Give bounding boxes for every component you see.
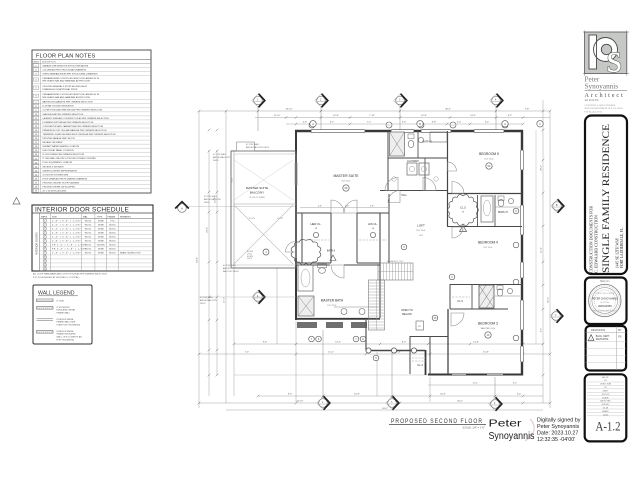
PS logo square <box>583 31 629 81</box>
svg-text:WOOD: WOOD <box>109 224 116 226</box>
svg-text:WALL, W R-13 (SEE PLAN: WALL, W R-13 (SEE PLAN <box>57 336 83 339</box>
svg-text:WOOD: WOOD <box>85 249 92 251</box>
svg-text:BEDROOM 5: BEDROOM 5 <box>479 152 499 156</box>
svg-text:WOOD: WOOD <box>85 224 92 226</box>
svg-text:WOOD: WOOD <box>85 229 92 231</box>
svg-text:13'-4″: 13'-4″ <box>335 342 341 344</box>
svg-text:16 RISERS @ 7 3/4″: 16 RISERS @ 7 3/4″ <box>387 261 404 263</box>
svg-text:8″ CMU: 8″ CMU <box>57 301 65 303</box>
svg-text:UNDERCOUNTER REFRIGERATOR: UNDERCOUNTER REFRIGERATOR <box>43 169 78 172</box>
svg-text:B: B <box>556 204 558 207</box>
svg-text:MASTER SUITE: MASTER SUITE <box>246 186 268 190</box>
svg-text:2'-8″ x 6'-8″ x 1-3/8″: 2'-8″ x 6'-8″ x 1-3/8″ <box>52 220 81 222</box>
svg-text:2'-8″ x 6'-8″ x 1-3/8″: 2'-8″ x 6'-8″ x 1-3/8″ <box>52 233 81 235</box>
svg-text:4C STG WALL: 4C STG WALL <box>246 143 260 146</box>
svg-text:6'-4″: 6'-4″ <box>485 122 490 124</box>
svg-text:STEEL BEAM ABOVE AS PER STRUCT: STEEL BEAM ABOVE AS PER STRUCTURAL DRAWI… <box>43 72 99 75</box>
svg-text:8'-4″: 8'-4″ <box>232 178 234 183</box>
svg-text:8″ CMU WALL BELOW OUTDOOR KITC: 8″ CMU WALL BELOW OUTDOOR KITCHEN COUNTE… <box>43 157 97 160</box>
svg-text:5: 5 <box>44 237 45 239</box>
svg-text:AS OF:: AS OF: <box>602 376 609 379</box>
bath4 fixtures <box>497 289 503 296</box>
side and bottom grid bubbles <box>252 290 265 304</box>
svg-text:BELOW: BELOW <box>402 312 412 316</box>
svg-text:PROVIDE GENERAL 3 STORY ACCESS: PROVIDE GENERAL 3 STORY ACCESS SHOP <box>43 85 88 88</box>
svg-text:11: 11 <box>44 261 46 263</box>
svg-text:CL.4: CL.4 <box>417 363 423 367</box>
svg-text:PR 2'-0″ x 6'-8″ x 1-3/8″: PR 2'-0″ x 6'-8″ x 1-3/8″ <box>52 245 86 247</box>
svg-text:PLAN FOR THICKNESS): PLAN FOR THICKNESS) <box>57 323 81 326</box>
svg-text:4'-6″: 4'-6″ <box>303 122 308 124</box>
svg-text:WOOD: WOOD <box>85 220 92 222</box>
svg-text:REVISIONS: REVISIONS <box>596 339 609 341</box>
svg-text:24'-4″: 24'-4″ <box>207 227 209 233</box>
loft railing <box>366 350 425 352</box>
svg-text:WOOD: WOOD <box>109 241 116 243</box>
svg-text:BALCONY DECK: BALCONY DECK <box>223 270 239 273</box>
wing wall notes <box>213 153 231 162</box>
svg-text:ABOVE BALCONY: ABOVE BALCONY <box>200 299 218 302</box>
svg-text:5'-8″: 5'-8″ <box>370 205 374 207</box>
svg-text:POOL EQUIPMENT LOCATION: POOL EQUIPMENT LOCATION <box>43 161 73 164</box>
svg-text:SEAL No.: SEAL No. <box>600 280 610 283</box>
svg-text:PR 2'-4″ x 6'-8″ x 1-3/8″: PR 2'-4″ x 6'-8″ x 1-3/8″ <box>52 249 86 251</box>
svg-text:7'-0″: 7'-0″ <box>367 122 372 124</box>
svg-text:CL.5: CL.5 <box>460 206 466 210</box>
svg-text:9'-0″ CLG.: 9'-0″ CLG. <box>327 305 337 307</box>
svg-text:INTERIOR DOOR SCHEDULE: INTERIOR DOOR SCHEDULE <box>35 207 129 214</box>
up-chevron bubble left <box>175 202 189 213</box>
svg-text:2'-4″ x 6'-8″ x 1-3/8″: 2'-4″ x 6'-8″ x 1-3/8″ <box>52 237 81 239</box>
dim ticks <box>198 110 552 405</box>
left revision cloud <box>291 239 321 264</box>
svg-text:C. EDWAARD CONSTRUCTION: C. EDWAARD CONSTRUCTION <box>594 215 599 273</box>
svg-text:9'-8″: 9'-8″ <box>263 342 268 344</box>
svg-text:6: 6 <box>44 241 45 243</box>
svg-text:BATHROOM CABINETS PER OWNERS S: BATHROOM CABINETS PER OWNERS SELECTION <box>43 101 93 104</box>
svg-text:REMARKS: REMARKS <box>120 215 131 218</box>
svg-text:26'-2″: 26'-2″ <box>548 297 550 303</box>
svg-text:FRAME WALL: FRAME WALL <box>57 312 71 315</box>
drawing title: proposed second floor <box>389 418 486 430</box>
svg-text:AR0012456: AR0012456 <box>598 304 612 308</box>
svg-text:WOOD: WOOD <box>85 237 92 239</box>
svg-text:ABOVE BALCONY: ABOVE BALCONY <box>213 156 231 159</box>
shower crosshatch <box>479 285 494 308</box>
svg-text:WALL LEGEND: WALL LEGEND <box>38 290 75 296</box>
svg-text:16'-8″: 16'-8″ <box>333 115 339 117</box>
svg-text:8'-2″: 8'-2″ <box>508 115 513 117</box>
svg-text:7: 7 <box>44 245 45 247</box>
svg-text:PREMIUM FLOOR TILE AND BASE AS: PREMIUM FLOOR TILE AND BASE AS PER OWNER… <box>43 129 107 132</box>
signature name <box>489 419 535 443</box>
svg-text:12: 12 <box>44 265 46 267</box>
svg-text:Peter: Peter <box>489 419 523 430</box>
svg-text:4C STG WALL: 4C STG WALL <box>200 296 214 299</box>
svg-text:WOOD: WOOD <box>109 233 116 235</box>
svg-text:2'-4″ x 6'-8″ x 1-3/8″: 2'-4″ x 6'-8″ x 1-3/8″ <box>52 229 81 231</box>
svg-text:15'-8″: 15'-8″ <box>483 352 489 354</box>
svg-text:ABOVE: ABOVE <box>223 267 231 270</box>
svg-text:23-08: 23-08 <box>603 408 609 410</box>
svg-text:CLOSET ROD AND SHELVING AS PER: CLOSET ROD AND SHELVING AS PER OWNERS SE… <box>43 109 103 112</box>
svg-text:FLOOR PLAN NOTES: FLOOR PLAN NOTES <box>36 53 96 59</box>
svg-text:WOOD: WOOD <box>85 233 92 235</box>
svg-text:NONE: NONE <box>98 241 104 243</box>
svg-text:STATE OF FLORIDA: STATE OF FLORIDA <box>595 292 614 295</box>
interior door schedule <box>32 205 153 279</box>
svg-text:1/4:12: 1/4:12 <box>247 258 252 260</box>
svg-text:HIS CL.: HIS CL. <box>368 222 378 226</box>
svg-text:FL LIC No: FL LIC No <box>601 302 610 304</box>
balcony parapet segments <box>297 322 317 328</box>
svg-text:PROVIDE CRICKET ROOF FLASHING: PROVIDE CRICKET ROOF FLASHING <box>43 181 80 184</box>
svg-text:4'-8″: 4'-8″ <box>432 122 437 124</box>
svg-text:6'-8″ DOOR HEIGHT AT GROUND FL: 6'-8″ DOOR HEIGHT AT GROUND FL. (TYPICAL… <box>33 276 80 279</box>
revisions box <box>586 326 627 371</box>
svg-text:Date: 2023.10.27: Date: 2023.10.27 <box>537 431 578 437</box>
svg-text:5'-8″: 5'-8″ <box>318 205 322 207</box>
top grid bubbles <box>252 94 265 108</box>
svg-text:5'-4″: 5'-4″ <box>402 122 407 124</box>
svg-text:PTD: PTD <box>110 220 115 222</box>
dimension lines <box>199 100 550 410</box>
svg-text:BALCONY: BALCONY <box>250 190 264 194</box>
svg-text:A: A <box>257 295 259 298</box>
digital signature text <box>537 418 581 444</box>
architect name block <box>585 76 628 114</box>
title/sheet box <box>585 374 627 441</box>
svg-text:12'-6″: 12'-6″ <box>472 383 477 385</box>
signature flourish <box>525 419 534 441</box>
svg-text:DECK: DECK <box>200 303 206 305</box>
svg-text:INTERIOR METAL: INTERIOR METAL <box>57 330 75 333</box>
svg-text:MASTER BATH: MASTER BATH <box>321 299 344 303</box>
svg-text:SLOPE: SLOPE <box>277 218 284 220</box>
svg-text:Synoyannis: Synoyannis <box>489 431 535 442</box>
svg-text:INTERIOR METAL: INTERIOR METAL <box>57 318 75 321</box>
svg-text:BEDROOM 4: BEDROOM 4 <box>478 241 498 245</box>
svg-text:SHELVING AS PER OWNERS SELECTI: SHELVING AS PER OWNERS SELECTION <box>43 113 84 116</box>
project title box <box>585 116 627 275</box>
svg-text:INTERIOR DOORS: INTERIOR DOORS <box>35 232 39 255</box>
svg-text:WOOD: WOOD <box>109 237 116 239</box>
svg-text:MASTER SUITE: MASTER SUITE <box>333 174 359 178</box>
svg-text:GARAGE LINE DENOTES STRUCTURE: GARAGE LINE DENOTES STRUCTURE ABOVE <box>43 64 89 67</box>
svg-text:7'-4″: 7'-4″ <box>245 352 250 354</box>
svg-text:9'-0″ CLG.: 9'-0″ CLG. <box>416 230 426 232</box>
svg-text:8: 8 <box>44 249 45 251</box>
svg-text:PROVIDE GARAGE VENT BLOCK: PROVIDE GARAGE VENT BLOCK <box>43 137 76 140</box>
svg-text:HALL: HALL <box>401 194 408 197</box>
svg-text:16'-8″: 16'-8″ <box>421 115 427 117</box>
svg-text:LOFT: LOFT <box>417 224 425 228</box>
svg-text:XXX SW MANDELIN AVE, FL 33025: XXX SW MANDELIN AVE, FL 33025 <box>585 107 624 110</box>
svg-text:Synoyannis: Synoyannis <box>585 83 619 91</box>
svg-text:2'-6″ x 6'-8″ x 1-3/8″: 2'-6″ x 6'-8″ x 1-3/8″ <box>52 224 81 226</box>
svg-text:C: C <box>539 123 541 126</box>
svg-text:COUNTERTOP AND CABINETS AS PER: COUNTERTOP AND CABINETS AS PER OWNERS SE… <box>43 125 104 128</box>
closet shelving dashes <box>304 239 329 241</box>
wall legend <box>33 285 92 344</box>
svg-text:4C STG WALL: 4C STG WALL <box>204 195 218 198</box>
svg-text:ABOVE BALCONY DECK: ABOVE BALCONY DECK <box>246 146 270 149</box>
interior partitions <box>296 212 331 214</box>
svg-text:NONE: NONE <box>98 237 104 239</box>
svg-text:6'-2″: 6'-2″ <box>330 122 335 124</box>
svg-text:4'-0″: 4'-0″ <box>457 122 462 124</box>
svg-text:7'-10″: 7'-10″ <box>369 115 375 117</box>
svg-text:SLOPE TO DRAIN: SLOPE TO DRAIN <box>249 196 265 199</box>
svg-text:34'-10″: 34'-10″ <box>286 109 293 111</box>
svg-text:6'-2″: 6'-2″ <box>513 383 517 385</box>
svg-text:VAULTED CLG.: VAULTED CLG. <box>481 327 496 330</box>
svg-text:PLUMBING FIXTURE AS PER OWNERS: PLUMBING FIXTURE AS PER OWNERS SELECTION <box>43 121 94 124</box>
svg-text:SLIDER: SLIDER <box>97 245 105 247</box>
seal box <box>585 278 627 325</box>
svg-text:BATH.5: BATH.5 <box>327 250 336 253</box>
svg-text:22″ x 54″ ATTIC ACCESS: 22″ x 54″ ATTIC ACCESS <box>43 190 67 193</box>
key circles scattered <box>310 121 316 127</box>
svg-text:MIN GUARD RAIL AND HANDRAIL AS: MIN GUARD RAIL AND HANDRAIL AS PER CODE <box>43 80 91 83</box>
svg-text:20'-10″: 20'-10″ <box>297 401 304 403</box>
svg-text:8'-0″: 8'-0″ <box>402 342 407 344</box>
svg-text:24x36: 24x36 <box>603 414 609 416</box>
svg-text:9: 9 <box>44 253 45 255</box>
svg-text:DECK: DECK <box>204 202 210 204</box>
svg-text:SCALE: 1/4″ = 1'-0″: SCALE: 1/4″ = 1'-0″ <box>462 425 485 429</box>
svg-text:54'-8″: 54'-8″ <box>197 257 199 263</box>
svg-text:NONE: NONE <box>98 253 104 255</box>
svg-text:SLOPE: SLOPE <box>249 218 256 220</box>
svg-text:SINGLE FAMILY RESIDENCE: SINGLE FAMILY RESIDENCE <box>601 124 612 273</box>
svg-text:ROOF DRAIN AS PER PLUMBING DRA: ROOF DRAIN AS PER PLUMBING DRAWINGS <box>43 177 88 180</box>
svg-text:10: 10 <box>44 257 46 259</box>
svg-text:PREFABRICATED 3 STORY ACCESS P: PREFABRICATED 3 STORY ACCESS PLUS LADDER… <box>43 93 100 96</box>
svg-text:2'-8″: 2'-8″ <box>525 109 530 111</box>
svg-text:14'-6″: 14'-6″ <box>470 115 476 117</box>
svg-text:CL.5: CL.5 <box>457 299 463 303</box>
svg-text:MARK: MARK <box>34 61 40 64</box>
svg-text:AR 0012456: AR 0012456 <box>585 99 599 102</box>
svg-text:RECESS 4″ SHOWER: RECESS 4″ SHOWER <box>43 166 64 168</box>
svg-text:9'-2″: 9'-2″ <box>541 328 543 333</box>
svg-text:WOOD: WOOD <box>109 229 116 231</box>
svg-text:3: 3 <box>44 229 45 231</box>
svg-text:63'-0″: 63'-0″ <box>382 408 388 410</box>
svg-text:4: 4 <box>44 233 45 235</box>
svg-text:FRAME INSULATED: FRAME INSULATED <box>57 333 77 336</box>
svg-text:LAUNDRY: LAUNDRY <box>407 159 420 163</box>
svg-text:INSULATED METAL: INSULATED METAL <box>57 309 77 312</box>
svg-text:REGISTERED ARCHITECT: REGISTERED ARCHITECT <box>593 310 617 313</box>
svg-text:BATH 5: BATH 5 <box>498 210 508 214</box>
svg-text:FRAME: FRAME <box>108 215 116 218</box>
svg-text:5'-4″: 5'-4″ <box>517 394 522 396</box>
svg-text:11'-4″: 11'-4″ <box>541 247 543 253</box>
svg-text:SMART GLIDER DOOR: SMART GLIDER DOOR <box>120 252 141 255</box>
svg-text:WOOD: WOOD <box>85 253 92 255</box>
svg-text:NONE: NONE <box>98 249 104 251</box>
master bath fixtures <box>298 265 313 291</box>
svg-text:9'-0″ CLG.: 9'-0″ CLG. <box>484 159 494 161</box>
svg-text:NONE: NONE <box>98 224 104 226</box>
svg-text:INSTANT WATER HEATER LOCATION: INSTANT WATER HEATER LOCATION <box>43 145 80 148</box>
svg-text:Peter Synoyannis: Peter Synoyannis <box>537 424 580 430</box>
svg-text:ABOVE BALCONY: ABOVE BALCONY <box>204 198 222 201</box>
svg-text:48'-6″: 48'-6″ <box>445 109 451 111</box>
svg-text:1445 SE 12TH WAY: 1445 SE 12TH WAY <box>616 237 620 268</box>
svg-text:4C STG WALL: 4C STG WALL <box>213 153 227 156</box>
svg-text:2'-8″ x 6'-8″ x 1-3/8″: 2'-8″ x 6'-8″ x 1-3/8″ <box>52 241 81 243</box>
CL5 revision cloud <box>448 195 479 226</box>
svg-text:LAUNDRY SINK AND COUNTER TOP A: LAUNDRY SINK AND COUNTER TOP AS PER OWNE… <box>43 117 110 120</box>
bath5 fixtures (top) <box>390 132 405 156</box>
svg-text:C: C <box>555 314 557 317</box>
svg-text:MAT.: MAT. <box>83 215 88 218</box>
svg-text:18'-8″: 18'-8″ <box>354 394 360 396</box>
svg-text:9'-4″: 9'-4″ <box>288 394 293 396</box>
svg-text:A: A <box>181 206 183 210</box>
svg-text:SIZE: SIZE <box>52 216 57 218</box>
svg-text:WOOD: WOOD <box>85 241 92 243</box>
svg-text:NONE: NONE <box>98 233 104 235</box>
svg-text:s: s <box>607 36 623 81</box>
svg-text:13: 13 <box>44 269 46 271</box>
svg-text:WOOD: WOOD <box>109 245 116 247</box>
svg-text:16 R: 16 R <box>419 235 424 237</box>
svg-text:11'-10″: 11'-10″ <box>274 115 281 117</box>
svg-text:BY: BY <box>618 328 622 332</box>
svg-text:DECK: DECK <box>213 160 219 162</box>
svg-text:WOOD: WOOD <box>85 245 92 247</box>
exterior walls <box>295 130 523 132</box>
svg-text:FOR THICKNESS): FOR THICKNESS) <box>57 339 75 341</box>
svg-text:Digitally signed by: Digitally signed by <box>537 418 581 424</box>
svg-text:OPEN TO: OPEN TO <box>401 308 413 312</box>
mid bath fixtures <box>481 196 493 222</box>
svg-text:1: 1 <box>44 220 45 222</box>
svg-text:2: 2 <box>44 224 45 226</box>
svg-text:9'-0″ CLG.: 9'-0″ CLG. <box>341 181 351 183</box>
seal <box>589 284 621 316</box>
svg-text:HER CL.: HER CL. <box>310 222 321 226</box>
door arcs <box>331 200 344 213</box>
svg-text:REVISIONS: REVISIONS <box>591 328 605 332</box>
svg-text:R-19 BATT SOUND INSULATION: R-19 BATT SOUND INSULATION <box>43 105 75 108</box>
svg-text:DATE:: DATE: <box>603 390 609 393</box>
svg-text:TEMPERED GLASS SHOWER ENCLOSUR: TEMPERED GLASS SHOWER ENCLOSURE AS PER O… <box>43 133 116 136</box>
svg-text:FRAME WALL (SEE: FRAME WALL (SEE <box>57 321 76 324</box>
svg-text:HBJ AHU ON STAND: HBJ AHU ON STAND <box>43 141 63 144</box>
svg-text:28'-2″: 28'-2″ <box>457 401 463 403</box>
svg-text:PETER SYNOYANNIS: PETER SYNOYANNIS <box>592 297 618 301</box>
svg-text:2'-8″ x 6'-8″ x 1-3/8″: 2'-8″ x 6'-8″ x 1-3/8″ <box>52 253 81 255</box>
laundry w/d <box>407 163 417 175</box>
svg-text:PH: 954.431.0012: PH: 954.431.0012 <box>585 111 603 114</box>
svg-text:BLDG. DEPT.: BLDG. DEPT. <box>596 336 610 338</box>
svg-text:DRAWINGS FOR APPROVAL PRIOR: DRAWINGS FOR APPROVAL PRIOR <box>43 88 78 91</box>
svg-text:ELECTRICAL PANEL LOCATION: ELECTRICAL PANEL LOCATION <box>43 149 74 152</box>
svg-text:16'-4″: 16'-4″ <box>440 394 446 396</box>
svg-text:WOOD: WOOD <box>109 253 116 255</box>
svg-text:COLUMN AS PER STRUCTURAL DRAWI: COLUMN AS PER STRUCTURAL DRAWINGS <box>43 68 87 71</box>
svg-text:MARK: MARK <box>41 215 48 218</box>
svg-text:ALL DOOR HARDWARE AND DOOR STY: ALL DOOR HARDWARE AND DOOR STYLES AS PER… <box>33 273 108 276</box>
svg-text:8″ EXTERIOR: 8″ EXTERIOR <box>57 307 71 309</box>
svg-text:17'-2″: 17'-2″ <box>224 297 226 303</box>
svg-text:12:32:35 -04'00': 12:32:35 -04'00' <box>537 437 575 443</box>
revision triangle marker <box>13 198 20 205</box>
balcony deck X <box>234 205 293 264</box>
svg-text:PS: PS <box>618 337 622 339</box>
balcony wing <box>231 151 296 268</box>
svg-text:4C STG WALL: 4C STG WALL <box>223 264 237 267</box>
svg-text:WOOD: WOOD <box>109 249 116 251</box>
svg-text:28'-6″: 28'-6″ <box>541 165 543 171</box>
stairs <box>378 263 413 280</box>
svg-text:MIN GUARD RAIL AND HANDRAIL AS: MIN GUARD RAIL AND HANDRAIL AS PER CODE <box>43 96 91 99</box>
svg-text:OUTDOOR KITCHEN SINK: OUTDOOR KITCHEN SINK <box>43 174 69 176</box>
svg-text:FLOOR FINISH PER OWNERS SELECT: FLOOR FINISH PER OWNERS SELECTION <box>43 154 85 156</box>
svg-text:14'-8″: 14'-8″ <box>473 342 479 344</box>
svg-text:A-1.2: A-1.2 <box>596 420 621 434</box>
svg-text:NONE: NONE <box>98 220 104 222</box>
svg-text:PROPOSED SECOND FLOOR: PROPOSED SECOND FLOOR <box>391 418 483 425</box>
floor plan notes box <box>32 50 151 193</box>
svg-text:9'-0″ CLG.: 9'-0″ CLG. <box>483 247 493 249</box>
svg-text:PREFABRICATED 3 STORY ACCESS P: PREFABRICATED 3 STORY ACCESS PLUS LADDER… <box>43 77 100 80</box>
svg-text:11'-0″: 11'-0″ <box>328 352 334 354</box>
svg-text:NONE: NONE <box>98 229 104 231</box>
svg-text:TYPE: TYPE <box>97 216 103 218</box>
svg-text:PROVIDE OVERFLOW SCUPPER: PROVIDE OVERFLOW SCUPPER <box>43 186 76 188</box>
svg-text:BEDROOM 3: BEDROOM 3 <box>478 322 498 326</box>
